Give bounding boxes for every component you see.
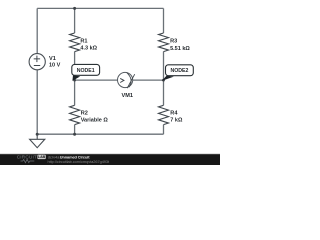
svg-text:R1: R1 [80, 38, 87, 44]
svg-text:7 kΩ: 7 kΩ [170, 118, 183, 124]
svg-text:5.51 kΩ: 5.51 kΩ [170, 46, 190, 52]
svg-text:VM1: VM1 [122, 93, 134, 99]
svg-text:10 V: 10 V [49, 62, 61, 68]
svg-text:4.3 kΩ: 4.3 kΩ [80, 45, 97, 51]
svg-text:http://circuitlab.com/cmqvta26: http://circuitlab.com/cmqvta267g493t [48, 159, 111, 164]
svg-text:NODE2: NODE2 [170, 68, 188, 74]
svg-text:V1: V1 [49, 56, 56, 62]
svg-text:LAB: LAB [38, 155, 46, 159]
svg-text:CIRCUIT: CIRCUIT [17, 155, 37, 160]
svg-text:NODE1: NODE1 [77, 68, 95, 74]
svg-text:R4: R4 [170, 111, 178, 117]
svg-text:R2: R2 [81, 111, 88, 117]
svg-text:Variable Ω: Variable Ω [81, 118, 109, 124]
svg-text:R3: R3 [170, 39, 177, 45]
